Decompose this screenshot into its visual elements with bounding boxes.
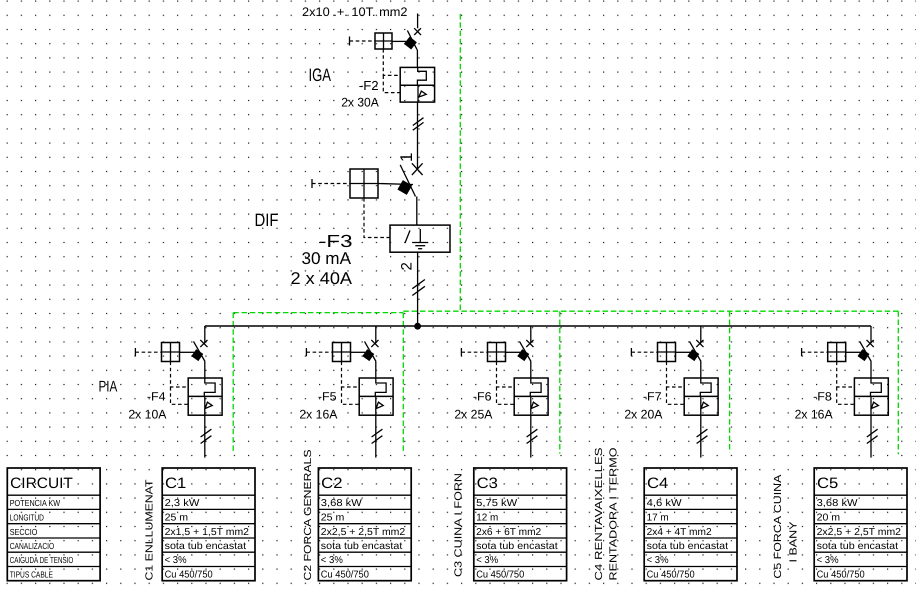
- svg-text:-F7: -F7: [643, 390, 662, 404]
- svg-text:-F4: -F4: [147, 390, 166, 404]
- breaker -F4 thermal notch: [204, 378, 215, 396]
- mech linkage T-tick (DIF): [311, 179, 313, 188]
- cable mark double slash (F4): [201, 429, 212, 443]
- svg-text:2x2,5 + 2,5T mm2: 2x2,5 + 2,5T mm2: [817, 527, 902, 538]
- switch blade (F7): [690, 341, 702, 361]
- table C3 row: 5,75 kW: [476, 498, 518, 509]
- svg-text:Cu 450/750: Cu 450/750: [165, 570, 213, 581]
- branch circuit F8: wire from bus: [870, 326, 872, 343]
- cable mark double slash (F5): [372, 429, 383, 443]
- breaker -F7 thermal notch: [700, 378, 711, 396]
- meter/CGP box (top, four-quadrant): [375, 33, 392, 49]
- breaker -F8 body: [854, 378, 888, 415]
- bus bar: [205, 325, 871, 327]
- svg-text:2x 30A: 2x 30A: [341, 95, 379, 109]
- switch blade (F5): [365, 341, 377, 361]
- meter/CGP box (DIF, four-quadrant): [350, 169, 378, 198]
- mech linkage dashed (DIF vertical to RCD): [364, 198, 390, 238]
- table C5 row: 2x2,5 + 2,5T mm2: [817, 527, 902, 538]
- mech linkage dashed vertical (F4): [171, 362, 189, 405]
- junction blob (top switch): [404, 37, 417, 50]
- mech linkage dashed vertical (F5): [342, 362, 360, 405]
- cable mark double slash (RCD-bus): [412, 280, 425, 296]
- table CIRCUIT row: CANALIZACIO: [10, 541, 55, 551]
- wire: switch to RCD body: [416, 197, 418, 226]
- RCD -F3 body (DIF): [390, 225, 450, 252]
- wire: meter to blob (DIF): [378, 184, 413, 185]
- svg-text:Cu 450/750: Cu 450/750: [321, 570, 369, 581]
- net label RENTADORA I TERMO: [609, 448, 620, 581]
- svg-text:2x4 + 4T mm2: 2x4 + 4T mm2: [647, 527, 712, 538]
- switch blade (F4): [194, 341, 206, 361]
- svg-text:4,6 kW: 4,6 kW: [647, 498, 683, 509]
- svg-text:TIPUS CABLE: TIPUS CABLE: [10, 570, 53, 580]
- wire: incoming supply: [417, 14, 419, 29]
- svg-text:Cu 450/750: Cu 450/750: [476, 570, 524, 581]
- mech linkage T-tick (F8): [801, 348, 803, 356]
- partition line vertical (green dashed, main): [459, 14, 461, 312]
- wire: meter to blob (F6): [506, 351, 521, 353]
- svg-text:C5 FORCA CUINA: C5 FORCA CUINA: [773, 474, 784, 578]
- svg-text:2x2,5 + 2,5T mm2: 2x2,5 + 2,5T mm2: [321, 527, 406, 538]
- mech linkage dashed horizontal (F6): [461, 351, 487, 353]
- table C1 row: sota tub encastat: [165, 541, 247, 552]
- table C4 row: 17 m: [647, 513, 669, 524]
- net label C2 FORCA GENERALS: [303, 449, 314, 580]
- svg-text:5,75 kW: 5,75 kW: [476, 498, 518, 509]
- table CIRCUIT: [7, 468, 100, 581]
- branch circuit F4: wire from bus: [204, 326, 206, 343]
- svg-text:sota tub encastat: sota tub encastat: [165, 541, 247, 552]
- svg-text:SECCIO: SECCIO: [10, 527, 38, 537]
- table C5 row: 3,68 kW: [817, 498, 859, 509]
- svg-text:POTENCIA KW: POTENCIA KW: [10, 498, 61, 508]
- svg-text:RENTADORA I TERMO: RENTADORA I TERMO: [609, 448, 620, 581]
- svg-text:2x 16A: 2x 16A: [795, 408, 834, 422]
- label -F5: [318, 390, 337, 404]
- table CIRCUIT row: SECCIO: [10, 527, 38, 537]
- table CIRCUIT row: CAIGUDA DE TENSIO: [10, 555, 74, 565]
- svg-text:25 m: 25 m: [321, 513, 345, 524]
- wire: meter to blob (F5): [351, 351, 366, 353]
- svg-text:1: 1: [397, 153, 416, 162]
- table C5: [814, 468, 907, 581]
- junction blob (DIF switch): [397, 180, 412, 195]
- meter/CGP box (F7, four-quadrant): [658, 343, 676, 362]
- svg-text:C5: C5: [817, 475, 838, 492]
- breaker -F4 body: [188, 378, 222, 415]
- value label 2 x 40A: [291, 269, 353, 288]
- table C2 row: 3,68 kW: [321, 498, 363, 509]
- svg-text:C4 RENTAVAIXELLES: C4 RENTAVAIXELLES: [594, 447, 605, 580]
- wire: RCD to bus: [417, 252, 419, 326]
- meter/CGP box (F4, four-quadrant): [162, 343, 180, 362]
- branch circuit F5: wire from bus: [375, 326, 377, 343]
- wire: IGA to DIF: [417, 102, 419, 169]
- partition line horizontal left (green dashed): [233, 312, 403, 314]
- breaker -F7 body: [684, 378, 718, 415]
- wire: switch to breaker (F6): [530, 362, 532, 379]
- breaker -F5 body: [359, 378, 393, 415]
- table C3 row: Cu 450/750: [476, 570, 524, 581]
- branch circuit F7: wire from bus: [700, 326, 702, 343]
- svg-text:sota tub encastat: sota tub encastat: [321, 541, 403, 552]
- svg-text:C3: C3: [477, 475, 498, 492]
- svg-text:I BANY: I BANY: [788, 521, 799, 562]
- table C1 row: &lt; 3%: [165, 555, 187, 566]
- svg-text:2x1,5 + 1,5T mm2: 2x1,5 + 1,5T mm2: [165, 527, 250, 538]
- svg-text:CANALIZACIO: CANALIZACIO: [10, 541, 55, 551]
- junction blob (F8): [858, 349, 870, 361]
- svg-text:sota tub encastat: sota tub encastat: [817, 541, 899, 552]
- table C5 row: 20 m: [817, 513, 841, 524]
- mech linkage dashed horizontal (F8): [802, 351, 828, 353]
- mech linkage T-tick (F5): [305, 348, 307, 356]
- mech linkage dashed horizontal (F7): [631, 351, 657, 353]
- breaker -F5 thermal notch: [375, 378, 386, 396]
- wire: breaker -F4 outgoing: [204, 415, 206, 457]
- table C2 row: sota tub encastat: [321, 541, 403, 552]
- table C4 header text: [647, 475, 668, 492]
- wire: breaker -F7 outgoing: [700, 415, 702, 457]
- disconnect switch blade (DIF): [400, 165, 415, 197]
- cable mark double slash (F6): [527, 429, 538, 443]
- table C4 row: Cu 450/750: [647, 570, 695, 581]
- switch contact cross (F8): [867, 340, 874, 347]
- svg-text:2x 16A: 2x 16A: [299, 408, 338, 422]
- label -F4: [147, 390, 166, 404]
- table C4 row: 2x4 + 4T mm2: [647, 527, 712, 538]
- svg-text:12 m: 12 m: [476, 513, 498, 524]
- wire: switch to breaker (F4): [204, 362, 206, 379]
- switch contact cross (F6): [526, 340, 533, 347]
- disconnect switch contact cross (DIF): [412, 163, 423, 175]
- breaker -F4 trip unit symbol: [205, 396, 212, 415]
- table C2 row: Cu 450/750: [321, 570, 369, 581]
- partition line horizontal right (green dashed): [403, 310, 898, 312]
- svg-text:< 3%: < 3%: [476, 555, 498, 566]
- svg-text:2 x 40A: 2 x 40A: [291, 269, 353, 288]
- breaker -F6 thermal notch: [530, 378, 541, 396]
- label -F6: [473, 390, 492, 404]
- wire: breaker -F8 outgoing: [870, 415, 872, 457]
- table C5 row: Cu 450/750: [817, 570, 865, 581]
- table C5 row: sota tub encastat: [817, 541, 899, 552]
- net label C3 CUINA I FORN: [454, 473, 465, 577]
- meter/CGP box (F5, four-quadrant): [333, 343, 351, 362]
- table C3 row: 2x6 + 6T mm2: [476, 527, 541, 538]
- breaker -F2 thermal notch: [417, 67, 426, 85]
- svg-text:Cu 450/750: Cu 450/750: [647, 570, 695, 581]
- svg-text:C2: C2: [321, 475, 342, 492]
- svg-text:-F5: -F5: [318, 390, 337, 404]
- switch blade (F8): [860, 341, 872, 361]
- table CIRCUIT row: POTENCIA KW: [10, 498, 61, 508]
- table C3 header text: [477, 475, 498, 492]
- label -F2: [359, 78, 379, 93]
- junction blob (F4): [191, 349, 203, 361]
- svg-text:< 3%: < 3%: [165, 555, 187, 566]
- junction blob (F5): [362, 349, 374, 361]
- table C1 row: Cu 450/750: [165, 570, 213, 581]
- wire: switch to breaker IGA: [416, 50, 418, 68]
- svg-text:C1 ENLLUMENAT: C1 ENLLUMENAT: [145, 479, 156, 581]
- table C3 row: 12 m: [476, 513, 498, 524]
- mech linkage T-tick (F4): [134, 348, 136, 356]
- table C2: [318, 468, 411, 581]
- partition line drop 5 (green dashed): [897, 311, 899, 454]
- breaker -F2 (IGA) body: [400, 67, 434, 102]
- svg-text:CIRCUIT: CIRCUIT: [10, 475, 73, 492]
- value label 2x 16A: [795, 408, 834, 422]
- disconnect switch blade (top): [407, 31, 417, 50]
- svg-text:sota tub encastat: sota tub encastat: [476, 541, 558, 552]
- breaker -F8 trip unit symbol: [871, 396, 878, 415]
- mech linkage dashed vertical (F7): [667, 362, 685, 405]
- table C1 row: 2,3 kW: [165, 498, 200, 509]
- wire: meter to switch blob: [392, 40, 406, 42]
- partition line drop 2 (green dashed): [402, 313, 404, 453]
- value label 30 mA: [302, 249, 352, 268]
- table C1 header text: [165, 475, 186, 492]
- wire number 1 (rotated): [397, 153, 416, 162]
- net label C5 FORCA CUINA: [773, 474, 784, 578]
- table C2 row: &lt; 3%: [321, 555, 343, 566]
- svg-text:< 3%: < 3%: [321, 555, 343, 566]
- value label 2x 20A: [624, 408, 663, 422]
- breaker -F5 trip unit symbol: [376, 396, 383, 415]
- svg-text:C3 CUINA I FORN: C3 CUINA I FORN: [454, 473, 465, 577]
- branch circuit F6: wire from bus: [530, 326, 532, 343]
- svg-text:IGA: IGA: [309, 65, 332, 85]
- svg-text:20 m: 20 m: [817, 513, 841, 524]
- label DIF: [255, 210, 279, 230]
- svg-text:C4: C4: [647, 475, 668, 492]
- wire: meter to blob (F7): [676, 351, 691, 353]
- disconnect switch contact cross (top): [414, 28, 421, 35]
- table C3: [474, 468, 567, 581]
- label -F8: [813, 390, 832, 404]
- switch blade (F6): [520, 341, 532, 361]
- svg-text:25 m: 25 m: [165, 513, 189, 524]
- table C2 header text: [321, 475, 342, 492]
- partition line drop 4 (green dashed): [729, 311, 731, 452]
- wire: breaker -F5 outgoing: [375, 415, 377, 457]
- svg-text:17 m: 17 m: [647, 513, 669, 524]
- svg-text:-F8: -F8: [813, 390, 832, 404]
- svg-text:-F3: -F3: [319, 231, 353, 251]
- svg-text:C2 FORCA GENERALS: C2 FORCA GENERALS: [303, 449, 314, 580]
- cable mark double slash (IGA-DIF): [413, 118, 424, 131]
- cable mark double slash (F8): [867, 429, 878, 443]
- partition line drop 1 (green dashed): [232, 313, 234, 454]
- table C4 row: &lt; 3%: [647, 555, 669, 566]
- label -F7: [643, 390, 662, 404]
- table C4 row: 4,6 kW: [647, 498, 683, 509]
- breaker -F2 trip unit symbol: [418, 85, 426, 102]
- table C1: [162, 468, 255, 581]
- mech linkage dashed horizontal (F5): [306, 351, 332, 353]
- table C5 header text: [817, 475, 838, 492]
- svg-text:< 3%: < 3%: [817, 555, 839, 566]
- svg-text:3,68 kW: 3,68 kW: [321, 498, 363, 509]
- svg-text:2x 20A: 2x 20A: [624, 408, 663, 422]
- svg-text:LONGITUD: LONGITUD: [10, 513, 44, 523]
- net label I BANY: [788, 521, 799, 562]
- wire: switch to breaker (F5): [375, 362, 377, 379]
- mech linkage dashed vertical (F6): [497, 362, 515, 405]
- junction blob (F7): [687, 349, 699, 361]
- wire: meter to blob (F8): [846, 351, 861, 353]
- svg-text:3,68 kW: 3,68 kW: [817, 498, 859, 509]
- svg-text:< 3%: < 3%: [647, 555, 669, 566]
- svg-text:2,3 kW: 2,3 kW: [165, 498, 200, 509]
- table C2 row: 25 m: [321, 513, 345, 524]
- label PIA: [99, 378, 118, 395]
- svg-text:2x 10A: 2x 10A: [128, 408, 167, 422]
- wire: switch to breaker (F7): [700, 362, 702, 379]
- table CIRCUIT header text: [10, 475, 73, 492]
- mech linkage dashed horizontal (F4): [135, 351, 161, 353]
- value label 2x 10A: [128, 408, 167, 422]
- value label 2x 30A: [341, 95, 379, 109]
- wire: breaker -F6 outgoing: [530, 415, 532, 457]
- RCD -F3 earth symbol: [412, 229, 428, 249]
- breaker -F6 body: [514, 378, 548, 415]
- table C4 row: sota tub encastat: [647, 541, 729, 552]
- breaker -F7 trip unit symbol: [701, 396, 708, 415]
- breaker -F6 trip unit symbol: [531, 396, 538, 415]
- svg-text:CAIGUDA DE TENSIO: CAIGUDA DE TENSIO: [10, 555, 74, 565]
- table C3 row: &lt; 3%: [476, 555, 498, 566]
- mech linkage dashed vertical (F8): [837, 362, 855, 405]
- mech linkage T-tick (top): [349, 37, 351, 46]
- table C3 row: sota tub encastat: [476, 541, 558, 552]
- svg-text:2: 2: [399, 262, 416, 270]
- table C5 row: &lt; 3%: [817, 555, 839, 566]
- value label: feeder cable 2x10 + 10T mm2: [302, 5, 408, 19]
- svg-text:-F6: -F6: [473, 390, 492, 404]
- svg-text:DIF: DIF: [255, 210, 279, 230]
- net label C4 RENTAVAIXELLES: [594, 447, 605, 580]
- value label 2x 16A: [299, 408, 338, 422]
- table CIRCUIT row: LONGITUD: [10, 513, 44, 523]
- svg-text:2x6 + 6T mm2: 2x6 + 6T mm2: [476, 527, 541, 538]
- table C1 row: 25 m: [165, 513, 189, 524]
- svg-text:sota tub encastat: sota tub encastat: [647, 541, 729, 552]
- svg-text:2x10 .+. 10T. mm2: 2x10 .+. 10T. mm2: [302, 5, 408, 19]
- mech linkage dashed (top): [350, 40, 376, 42]
- table CIRCUIT row: TIPUS CABLE: [10, 570, 53, 580]
- mech linkage T-tick (F6): [460, 348, 462, 356]
- cable mark double slash (F7): [697, 429, 708, 443]
- svg-text:-F2: -F2: [359, 78, 379, 93]
- wire number 2 (rotated): [399, 262, 416, 270]
- table C2 row: 2x2,5 + 2,5T mm2: [321, 527, 406, 538]
- switch contact cross (F4): [200, 340, 207, 347]
- breaker -F8 thermal notch: [871, 378, 882, 396]
- switch contact cross (F5): [371, 340, 378, 347]
- svg-text:30 mA: 30 mA: [302, 249, 352, 268]
- bus junction node: [414, 323, 421, 330]
- value label 2x 25A: [454, 408, 493, 422]
- svg-text:2x 25A: 2x 25A: [454, 408, 493, 422]
- svg-text:Cu 450/750: Cu 450/750: [817, 570, 865, 581]
- table C1 row: 2x1,5 + 1,5T mm2: [165, 527, 250, 538]
- meter/CGP box (F6, four-quadrant): [488, 343, 506, 362]
- net label C1 ENLLUMENAT: [145, 479, 156, 581]
- table C4: [644, 468, 737, 581]
- label IGA: [309, 65, 332, 85]
- switch contact cross (F7): [696, 340, 703, 347]
- wire: switch to breaker (F8): [870, 362, 872, 379]
- partition line drop 3 (green dashed): [559, 311, 561, 453]
- meter/CGP box (F8, four-quadrant): [828, 343, 846, 362]
- label -F3: [319, 231, 353, 251]
- svg-text:C1: C1: [165, 475, 186, 492]
- svg-text:PIA: PIA: [99, 378, 118, 395]
- junction blob (F6): [517, 349, 529, 361]
- RCD -F3 test slash: [405, 230, 410, 243]
- wire: meter to blob (F4): [180, 351, 195, 353]
- mech linkage dashed (IGA): [383, 49, 400, 93]
- mech linkage dashed (DIF horizontal): [312, 183, 350, 185]
- mech linkage T-tick (F7): [630, 348, 632, 356]
